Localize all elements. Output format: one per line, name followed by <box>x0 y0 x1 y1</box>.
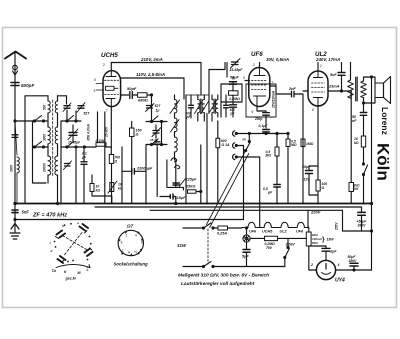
svg-text:85K 4,7mA: 85K 4,7mA <box>87 124 91 141</box>
tube UL2 <box>308 71 328 106</box>
switch S1a <box>34 120 36 122</box>
svg-text:5: 5 <box>243 76 245 80</box>
core dashes <box>52 100 54 176</box>
svg-text:2: 2 <box>310 263 313 267</box>
svg-text:6: 6 <box>141 241 143 245</box>
coil L3 sections <box>55 101 58 175</box>
wire antenna down <box>14 52 16 204</box>
wire loop top left <box>25 96 48 204</box>
wire speaker return <box>371 77 373 270</box>
svg-text:UL2: UL2 <box>280 230 288 234</box>
svg-text:78V: 78V <box>266 246 273 250</box>
svg-text:380V: 380V <box>349 259 358 263</box>
svg-text:UF6: UF6 <box>249 230 257 234</box>
bus 2 <box>95 206 362 208</box>
resistor 80-130-80 block <box>306 232 311 246</box>
svg-text:3: 3 <box>272 81 274 85</box>
wire screen rail 110V <box>121 78 184 99</box>
svg-text:kΩ: kΩ <box>118 187 123 191</box>
variable capacitor C5 15-45pF <box>69 133 77 136</box>
oscillator coil L4 <box>175 100 178 153</box>
wire verticals mid <box>61 110 76 204</box>
wire osc switch row 1 <box>146 121 167 123</box>
wire heater feed <box>307 210 309 227</box>
svg-text:500: 500 <box>43 104 47 110</box>
svg-text:1μ: 1μ <box>156 109 160 113</box>
wire 255V <box>343 210 372 231</box>
svg-text:3000: 3000 <box>10 165 14 172</box>
wire grid return <box>104 112 106 204</box>
tube UCH5 <box>103 71 121 107</box>
svg-text:UCH5: UCH5 <box>101 52 118 59</box>
svg-text:Köln: Köln <box>374 143 393 181</box>
IF transformer T2 <box>212 100 218 113</box>
svg-text:6: 6 <box>252 110 254 114</box>
svg-text:23mA: 23mA <box>328 85 340 89</box>
wire grid line <box>121 94 129 96</box>
rotated labels <box>10 90 339 231</box>
svg-text:3: 3 <box>94 89 96 93</box>
svg-text:Lorenz: Lorenz <box>380 107 390 135</box>
svg-text:gez.M: gez.M <box>65 277 77 281</box>
dial lamp <box>243 235 250 242</box>
wire UL2 grid <box>303 90 308 92</box>
output transformer primary <box>350 63 352 81</box>
svg-text:Meßgerät 310 Ω/V, 300 bzw. 6V: Meßgerät 310 Ω/V, 300 bzw. 6V - Bereich <box>178 273 269 279</box>
switch S1b <box>34 146 36 148</box>
trimmer C7 15-45pF <box>153 131 159 134</box>
svg-text:2nF: 2nF <box>288 87 296 91</box>
svg-text:MΩ: MΩ <box>266 154 272 158</box>
svg-text:UCH5: UCH5 <box>262 230 273 234</box>
svg-text:kΩ: kΩ <box>354 141 359 145</box>
resistor 100ohm <box>316 180 320 191</box>
svg-text:2200μμF: 2200μμF <box>136 167 153 171</box>
svg-text:Lautstärkeregler voll aufgedre: Lautstärkeregler voll aufgedreht <box>181 281 255 287</box>
capacitor 25uF <box>306 171 313 174</box>
svg-text:8: 8 <box>312 108 314 112</box>
capacitor 2uF <box>322 248 330 251</box>
svg-text:15V/220mA: 15V/220mA <box>272 90 276 108</box>
wire anode rail 210V <box>111 63 201 96</box>
svg-text:255V: 255V <box>335 222 339 231</box>
wafer switch diagram <box>63 233 87 257</box>
node bus junctions <box>111 202 319 204</box>
svg-text:pF: pF <box>152 142 157 146</box>
resistor 700ohm <box>109 155 113 164</box>
svg-text:25kΩ: 25kΩ <box>185 185 195 189</box>
capacitor +50uF a <box>361 207 363 212</box>
potentiometer 1k <box>110 183 114 192</box>
IFT2 core <box>214 99 215 114</box>
capacitor 0.5uF <box>274 185 281 188</box>
capacitor 80pF <box>155 142 161 144</box>
switch tone <box>363 163 365 165</box>
output transformer core <box>356 77 358 101</box>
trimmer C9 <box>65 164 71 167</box>
capacitor 50pF <box>130 92 133 99</box>
resistor 0.5M grid <box>275 147 279 156</box>
svg-text:20000: 20000 <box>43 163 47 173</box>
wire UL2 anode <box>328 91 351 98</box>
capacitor 200pF <box>257 107 266 112</box>
svg-text:225μF: 225μF <box>185 178 198 182</box>
heater chain <box>183 227 203 229</box>
svg-text:7: 7 <box>106 109 108 113</box>
svg-text:5nF: 5nF <box>22 210 30 215</box>
capacitor 100pF c <box>230 105 237 107</box>
svg-text:1: 1 <box>122 249 124 253</box>
IFT1 core <box>200 99 201 114</box>
capacitor 2200pF <box>132 169 135 174</box>
svg-text:50μF: 50μF <box>230 76 240 80</box>
switch wiper hook <box>171 158 180 169</box>
resistor 1M <box>301 139 305 147</box>
svg-text:110V, 2,5-5mA: 110V, 2,5-5mA <box>136 72 165 77</box>
svg-text:12V: 12V <box>304 178 311 182</box>
svg-text:2W: 2W <box>353 187 360 191</box>
svg-text:Ω 1A: Ω 1A <box>221 143 230 147</box>
svg-text:2μF: 2μF <box>330 250 338 254</box>
speaker <box>375 83 384 98</box>
wire IF verticals <box>186 63 225 204</box>
svg-text:240V, 17mA: 240V, 17mA <box>315 57 340 62</box>
gang dashed link <box>207 229 209 264</box>
wire mid switch row 2 <box>61 146 81 148</box>
wire band switch row 2 <box>33 146 48 148</box>
capacitor 315uF <box>170 194 173 199</box>
svg-text:13W: 13W <box>327 238 335 242</box>
wire anode UF6 <box>276 86 291 94</box>
svg-text:31W: 31W <box>177 243 187 248</box>
capacitor 50uF cathode <box>230 82 237 85</box>
capacitor 5nF bus <box>12 210 18 213</box>
wire speaker bottom <box>364 98 376 104</box>
svg-text:1MΩ: 1MΩ <box>306 142 314 146</box>
resistor 10k left <box>90 184 94 192</box>
variable capacitor 225pF <box>173 183 180 185</box>
svg-text:380V: 380V <box>358 224 367 228</box>
antenna plug <box>13 65 18 70</box>
antenna <box>5 52 26 59</box>
wire UL2 cathode <box>309 106 318 170</box>
wire verticals osc <box>146 122 162 204</box>
svg-text:K: K <box>64 270 67 274</box>
svg-text:L: L <box>87 268 89 272</box>
capacitor 100pF <box>189 105 194 108</box>
wire coil connections <box>47 96 49 183</box>
svg-text:Ω: Ω <box>321 186 325 190</box>
capacitor 5uF psu <box>243 250 250 253</box>
svg-text:Ω: Ω <box>135 133 139 137</box>
svg-text:kΩ: kΩ <box>96 189 101 193</box>
capacitor 500pF <box>11 83 19 86</box>
wire stack <box>160 145 201 204</box>
switch S2b <box>66 146 68 148</box>
bus 4 <box>15 219 244 221</box>
resistor 1.5M <box>229 91 239 95</box>
output transformer secondary <box>361 81 367 98</box>
svg-text:MΩ: MΩ <box>291 143 297 147</box>
svg-text:TA: TA <box>52 269 57 273</box>
tube UF6 shield box <box>246 84 276 117</box>
svg-text:52T: 52T <box>84 112 91 116</box>
wire v76 <box>75 147 77 204</box>
bus 3 <box>150 209 343 211</box>
svg-text:UY4: UY4 <box>335 278 345 284</box>
socket diagram circle <box>118 230 143 255</box>
main bus <box>15 203 372 205</box>
capacitor 0.1uF <box>265 111 267 128</box>
ground <box>14 204 16 233</box>
svg-text:5: 5 <box>140 249 142 253</box>
capacitor 100pF b <box>224 105 229 108</box>
svg-text:15-45pF: 15-45pF <box>230 68 244 72</box>
trimmer C3 <box>64 106 70 109</box>
IF transformer T1 <box>198 100 205 113</box>
resistor 0.2M 78V <box>265 236 278 240</box>
svg-text:5: 5 <box>94 78 96 82</box>
wire TA lines <box>236 134 288 228</box>
wire speaker top <box>364 77 376 83</box>
svg-text:2: 2 <box>320 64 322 68</box>
switch S2a <box>66 120 68 122</box>
heater UF6b <box>292 222 308 227</box>
svg-text:2: 2 <box>103 63 105 67</box>
capacitor on antenna lead <box>12 135 18 138</box>
resistor 600ohm 1A <box>216 138 220 148</box>
svg-text:315μF: 315μF <box>175 196 187 200</box>
resistor 0.1M <box>96 143 106 147</box>
trimmer C6 52T <box>147 106 153 109</box>
mains switch top <box>203 227 205 229</box>
svg-text:5nF: 5nF <box>330 73 337 77</box>
wire switch diagonals <box>207 151 249 228</box>
switch TA m <box>248 134 250 142</box>
capacitor 50nF <box>363 103 365 112</box>
tube UF6 <box>249 68 270 107</box>
resistor 10k <box>361 136 365 147</box>
capacitor 2nF <box>292 91 295 97</box>
wire cathode loop <box>221 63 242 118</box>
svg-text:30V, 0,5mA: 30V, 0,5mA <box>266 57 289 62</box>
switch S3a <box>151 121 153 123</box>
svg-text:3: 3 <box>121 241 123 245</box>
svg-text:0,25A: 0,25A <box>217 232 227 236</box>
tube UY4 <box>316 260 335 279</box>
svg-text:80Ω: 80Ω <box>312 241 318 245</box>
node antenna bus junction <box>14 120 16 122</box>
wafer pointer arc <box>56 265 90 268</box>
svg-text:Ω7: Ω7 <box>126 224 134 229</box>
wire coil2 top to trimmer <box>58 96 67 104</box>
svg-text:5μF: 5μF <box>242 255 249 259</box>
capacitor 5nF <box>341 63 343 73</box>
svg-text:210V, 2mA: 210V, 2mA <box>140 57 163 62</box>
svg-text:UF6: UF6 <box>251 51 263 58</box>
resistor 3k 2W <box>349 183 354 192</box>
svg-text:h: h <box>62 224 64 228</box>
svg-text:25μF: 25μF <box>301 165 311 169</box>
switch S3b <box>151 144 153 146</box>
heater UF6 <box>242 222 259 227</box>
svg-text:25-30V: 25-30V <box>105 126 109 138</box>
svg-text:52T: 52T <box>155 104 162 108</box>
capacitor 0.1uF left <box>81 162 87 165</box>
svg-text:0,1MΩ: 0,1MΩ <box>96 139 107 143</box>
wire mid switch row 1 <box>61 120 81 122</box>
svg-text:ZF = 470 kHz: ZF = 470 kHz <box>32 213 67 219</box>
TA jack arcs <box>233 131 235 160</box>
resistor 0.5M pot <box>286 139 290 147</box>
svg-text:1,5MΩ: 1,5MΩ <box>229 97 240 101</box>
resistor 680ohm <box>138 93 148 97</box>
capacitor 50uF b <box>350 263 358 266</box>
svg-text:2: 2 <box>126 234 128 238</box>
svg-text:4: 4 <box>135 234 137 238</box>
svg-text:4: 4 <box>337 263 340 267</box>
svg-text:220V: 220V <box>285 242 296 247</box>
resistor 150ohm <box>130 128 135 137</box>
heater UL2 <box>275 222 292 227</box>
svg-text:3000: 3000 <box>43 134 47 141</box>
wire osc switch row 2 <box>146 144 167 146</box>
wire band switch row 1 <box>15 120 47 122</box>
heater UCH5 <box>259 222 276 227</box>
svg-text:500pF: 500pF <box>21 83 34 88</box>
trimmer C4 <box>78 106 84 109</box>
svg-text:680Ω: 680Ω <box>138 98 149 103</box>
svg-text:200p: 200p <box>254 117 262 121</box>
resistor 25k <box>188 190 197 193</box>
trimmer C8 15-45pF <box>232 62 239 65</box>
svg-text:Ω: Ω <box>114 160 118 164</box>
wire left loop box <box>33 121 47 183</box>
svg-text:15-45μF: 15-45μF <box>68 141 81 145</box>
antenna coil L1 <box>17 157 19 173</box>
fuse 0.25A <box>218 226 228 230</box>
svg-text:UF6: UF6 <box>296 230 304 234</box>
svg-text:50pF: 50pF <box>127 86 137 91</box>
svg-text:0,1μF: 0,1μF <box>259 124 269 128</box>
svg-text:2: 2 <box>253 63 255 67</box>
svg-text:d: d <box>51 249 53 253</box>
svg-text:220V: 220V <box>310 210 321 215</box>
switch 220V <box>287 247 289 249</box>
svg-text:Sockelschaltung: Sockelschaltung <box>114 262 149 267</box>
wire mains bottom <box>183 266 203 268</box>
coil L2 sections <box>48 101 51 175</box>
